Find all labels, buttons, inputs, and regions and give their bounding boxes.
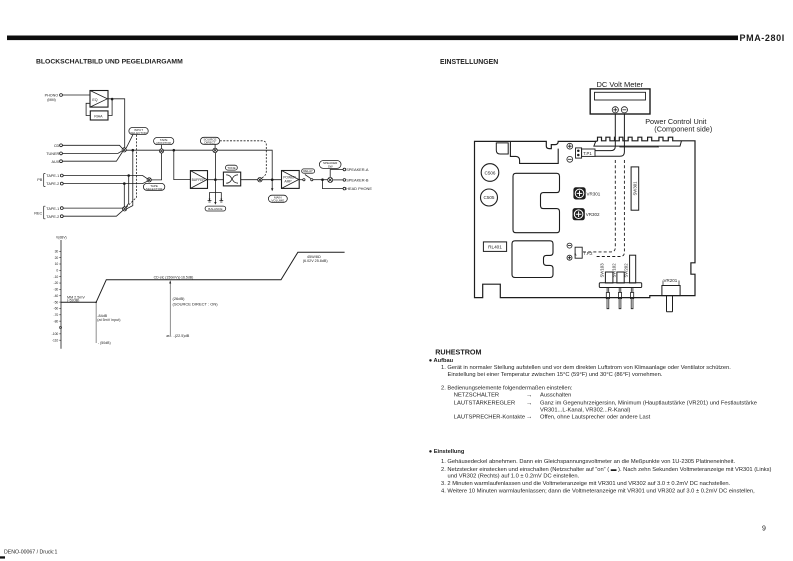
svg-text:4. Weitere 10 Minuten warmlauf: 4. Weitere 10 Minuten warmlaufenlassen; … [441,489,755,495]
filter TONE [223,172,240,186]
svg-text:T.P1: T.P1 [583,151,592,156]
svg-text:-50: -50 [53,300,58,304]
svg-text:DENO-00067 / Druck:1: DENO-00067 / Druck:1 [4,550,57,556]
svg-text:SPEAKER-A: SPEAKER-A [346,167,369,172]
wire power amp out [299,179,303,181]
label oval balance [205,206,226,211]
svg-text:TAPE-1: TAPE-1 [46,207,59,211]
label oval tape monitor [154,138,174,149]
wire TAPE1 drop [126,176,129,207]
input CD [60,144,123,149]
svg-text:SPEAKER-B: SPEAKER-B [346,178,369,183]
svg-text:VOLUME: VOLUME [271,199,284,203]
svg-text:SW202: SW202 [623,263,628,278]
bracket REC [44,206,46,219]
svg-text:VR302: VR302 [586,212,600,217]
switch speaker sw [328,177,333,182]
node TAPE-2 [123,183,125,185]
svg-text:- (50dB): - (50dB) [98,341,111,345]
switch SW202 [617,272,624,283]
footer corner tick [0,556,5,558]
svg-text:SELECTOR: SELECTOR [130,131,147,135]
svg-text:-10: -10 [53,275,58,279]
pot main volume arrow [271,181,273,192]
input AUX [60,152,123,163]
svg-text:RIAA: RIAA [94,115,103,119]
node buffer out [215,179,217,181]
einstellungen texts [484,80,713,283]
node headphone tap [322,179,324,181]
svg-text:Ausschalten: Ausschalten [540,393,571,399]
svg-text:● Einstellung: ● Einstellung [429,449,465,455]
svg-text:CD etc (150mV)(-16.5dB): CD etc (150mV)(-16.5dB) [154,275,194,279]
wire buffer feed [174,150,191,179]
svg-text:Ganz im Gegenuhrzeigersinn, Mi: Ganz im Gegenuhrzeigersinn, Minimum (Hau… [540,401,757,407]
level diagram tick marks [59,251,61,340]
svg-text:Einstellung bei einer Temperat: Einstellung bei einer Temperatur zwische… [448,372,663,378]
svg-text:AUX: AUX [51,160,59,164]
svg-text:PMA-280I: PMA-280I [740,33,785,43]
node EQ out [111,98,113,100]
svg-text:PB: PB [37,178,43,182]
svg-text:Offen, ohne Lautsprecher oder: Offen, ohne Lautsprecher oder andere Las… [540,414,651,420]
svg-text:→: → [526,392,532,399]
svg-text:REC: REC [34,211,42,215]
svg-text:TUNER: TUNER [46,152,59,156]
svg-text:V(dBV): V(dBV) [56,236,67,240]
block diagram small texts [34,94,372,219]
terminal speaker B [343,179,346,182]
svg-text:EINSTELLUNGEN: EINSTELLUNGEN [440,59,498,66]
node main volume [271,179,273,181]
meter DC Volt Meter [590,89,650,114]
svg-text:HEAD PHONE: HEAD PHONE [346,186,372,191]
label oval tape selector [143,183,164,190]
svg-text:SW: SW [328,164,333,168]
testpoint TP1 minus [567,156,573,162]
svg-text:1. Gehäusedeckel abnehmen. Dan: 1. Gehäusedeckel abnehmen. Dann ein Glei… [441,459,735,465]
switch pin 1 [606,288,609,309]
svg-text:LAUTSPRECHER-Kontakte: LAUTSPRECHER-Kontakte [454,414,525,420]
output TAPE-2 REC [60,210,123,217]
testpoint TP1 plus [567,143,573,149]
svg-text:(6.02V 25.8dB): (6.02V 25.8dB) [303,259,328,263]
svg-text:NETZSCHALTER: NETZSCHALTER [454,393,499,399]
svg-text:RELAY: RELAY [303,169,313,173]
wire speaker A [330,170,343,178]
svg-text:C505: C505 [484,195,495,200]
level curve [61,252,345,302]
node A [132,149,134,151]
capacitor C506 [481,164,499,182]
pcb outline [475,137,696,297]
wire buffer out [208,179,224,181]
svg-text:20: 20 [55,256,59,260]
input TAPE-1 PB [60,174,147,179]
label oval source direct [200,137,266,178]
pcb cutout middle [513,173,560,232]
bracket PB [44,174,46,187]
wire relay out [313,179,328,181]
switch tape selector [147,178,151,182]
op-amp power amp [282,171,300,189]
testpoint TP2 minus [567,243,572,248]
input TUNER [60,151,123,155]
dashed lead to TP2 right [595,160,624,257]
arrow source direct gain [169,280,171,335]
svg-text:SW103: SW103 [599,263,604,278]
svg-text:SW301: SW301 [632,181,637,196]
switch pin 3 [631,288,634,309]
svg-text:BLOCKSCHALTBILD UND PEGELDIARG: BLOCKSCHALTBILD UND PEGELDIARGAMM [36,59,183,66]
switch SW203 [605,272,613,283]
capacitor C505 [481,189,498,206]
svg-text:C506: C506 [485,170,496,175]
svg-text:-70: -70 [53,313,58,317]
switch SW301 [631,167,639,210]
svg-text:VR301...L-Kanal, VR302...R-Kan: VR301...L-Kanal, VR302...R-Kanal) [540,408,631,414]
testpoint TP2 plus [567,255,572,260]
wire balance tap [214,153,216,203]
label oval input selector [126,128,148,208]
svg-text:→: → [526,400,532,407]
axis break circle [59,326,61,328]
wire EQ output [107,99,124,148]
svg-text:PHONO: PHONO [45,94,59,98]
balance network [208,192,224,204]
svg-text:BUFFER: BUFFER [192,178,206,182]
svg-text:(at 5mV input): (at 5mV input) [97,318,120,322]
svg-text:0: 0 [56,269,58,273]
relay contact [303,175,313,181]
svg-text:dBm: dBm [166,334,171,338]
axis level diagram [60,240,62,349]
testpoint TP2 box [575,247,582,258]
svg-text:BALANCE: BALANCE [208,207,222,211]
switch tape monitor [159,149,163,153]
svg-text:-20: -20 [53,281,58,285]
svg-text:-80: -80 [53,319,58,323]
dashed lead to TP2 left [583,160,615,252]
svg-text:(Component side): (Component side) [654,125,712,134]
terminal headphone [343,187,346,190]
wire tape selector to monitor [151,153,161,180]
switch source direct lower [258,178,262,182]
switch pin 2 [618,288,621,309]
svg-text:2. Bedienungselemente folgende: 2. Bedienungselemente folgendermaßen ein… [441,386,573,392]
svg-text:● Aufbau: ● Aufbau [429,358,454,364]
wire to power amp [262,179,281,181]
input TAPE-2 PB [60,181,147,185]
wire REC feed vertical [127,150,133,208]
header rule bar [7,36,738,41]
level diagram labels [52,249,59,342]
pot VR201 [662,281,680,312]
svg-text:RL401: RL401 [488,245,502,250]
svg-text:9: 9 [762,526,766,533]
svg-text:(-52dB): (-52dB) [67,299,79,303]
svg-text:-60: -60 [53,307,58,311]
svg-text:2. Netzstecker einstecken und: 2. Netzstecker einstecken und einschalte… [441,467,772,473]
wire main line pre [126,149,213,151]
pcb cutout lower [512,241,553,278]
svg-text:DC Volt Meter: DC Volt Meter [597,80,644,89]
pcb step cutout top-left [510,141,558,163]
svg-text:→: → [526,414,532,421]
relay RL401 [483,242,506,252]
wire TAPE2 drop [123,184,125,207]
svg-text:T.P.2: T.P.2 [584,251,594,256]
svg-text:TONE: TONE [227,166,235,170]
node TAPE-1 [128,175,130,177]
svg-text:TAPE-2: TAPE-2 [46,215,59,219]
node curve kink [95,302,97,304]
svg-text:(MM): (MM) [47,98,56,102]
svg-text:-40: -40 [53,294,58,298]
terminal minus [621,107,627,113]
svg-text:DIRECT: DIRECT [204,141,215,145]
trimmer VR302 [573,209,584,220]
svg-text:30: 30 [55,249,59,253]
svg-text:-100: -100 [52,332,59,336]
switch rec selector [123,207,127,211]
svg-text:(SOURCE DIRECT : ON): (SOURCE DIRECT : ON) [173,301,219,306]
svg-text:VR201: VR201 [664,278,678,283]
input PHONO terminal [60,94,90,97]
output TAPE-1 REC [60,207,122,210]
feedback RIAA [86,99,112,120]
testpoint TP1 box [576,148,596,158]
label oval relay [302,169,315,173]
label oval main volume [268,195,287,202]
wire source direct bypass [217,150,272,180]
switch source direct upper [213,148,217,152]
svg-text:-110: -110 [52,338,59,342]
terminal plus [612,107,618,113]
svg-text:AMP: AMP [284,179,292,183]
svg-text:RUHESTROM: RUHESTROM [435,348,481,357]
svg-text:1. Gerät in normaler Stellung: 1. Gerät in normaler Stellung aufstellen… [441,365,731,371]
terminal speaker A [343,168,346,171]
svg-text:-(22.5)dB: -(22.5)dB [174,334,190,338]
label oval tone [226,165,238,170]
switch SW201 [630,255,636,283]
svg-text:SELECTOR: SELECTOR [146,187,163,191]
line phono drop [95,302,97,343]
svg-text:P: P [574,253,578,256]
trimmer VR301 [574,188,585,199]
meter lead plus [595,115,615,151]
svg-text:und VR302 (Rechts) auf 1.0 ± 0: und VR302 (Rechts) auf 1.0 ± 0.2mV DC ei… [448,473,580,479]
svg-text:3. 2 Minuten warmlaufenlassen: 3. 2 Minuten warmlaufenlassen und die Vo… [441,481,731,487]
switch input selector [122,148,126,152]
svg-text:CD: CD [54,144,60,148]
svg-text:10: 10 [55,262,59,266]
pcb hole rounded square [496,143,508,154]
node B [173,149,175,151]
svg-text:TAPE-2: TAPE-2 [46,182,59,186]
svg-text:SW102: SW102 [611,263,616,278]
op-amp EQ [90,91,108,108]
wire tone out [241,179,258,181]
svg-text:TAPE-1: TAPE-1 [46,174,59,178]
svg-text:(26dB): (26dB) [173,296,186,301]
switch mounting bar [599,283,641,288]
svg-text:EQ: EQ [92,98,97,102]
op-amp buffer [190,171,207,189]
svg-text:MONITOR: MONITOR [157,141,172,145]
svg-text:LAUTSTÄRKEREGLER: LAUTSTÄRKEREGLER [454,400,515,407]
wire headphone [323,180,344,189]
pcb inner finger bases [594,141,682,146]
wire speaker B [333,179,344,181]
svg-text:VR301: VR301 [587,191,601,196]
meter lead minus [595,115,624,157]
label oval speaker sw [319,161,341,169]
svg-text:-30: -30 [53,288,58,292]
meter display window [595,92,646,100]
